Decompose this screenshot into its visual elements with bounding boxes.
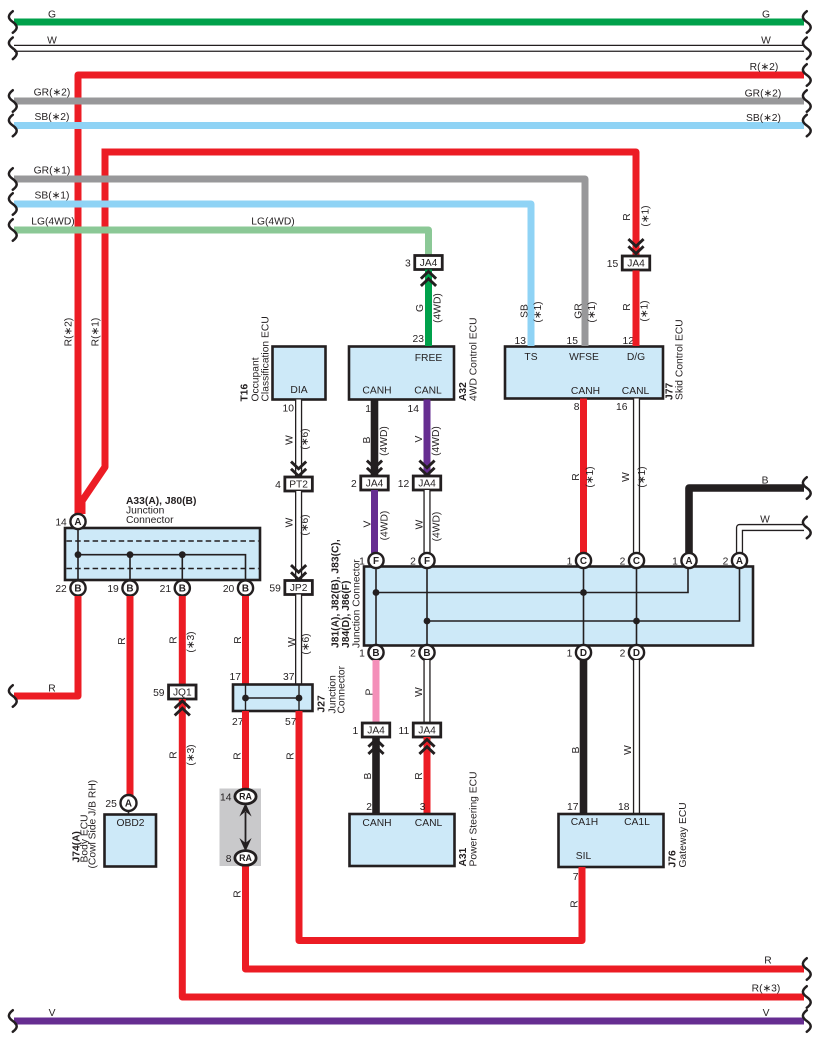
- svg-text:R: R: [233, 752, 244, 759]
- svg-text:G: G: [48, 10, 56, 21]
- svg-text:10: 10: [283, 404, 295, 415]
- svg-text:12: 12: [623, 336, 635, 347]
- svg-text:(∗1): (∗1): [637, 466, 648, 487]
- junction dot J27 right: [296, 695, 303, 702]
- svg-text:A32: A32: [458, 382, 469, 401]
- label Body ECU: [80, 814, 91, 862]
- svg-text:15: 15: [567, 336, 579, 347]
- node 25 A: [105, 795, 136, 811]
- node 19 B: [107, 580, 137, 595]
- connector 59 JP2: [269, 581, 312, 595]
- svg-text:3: 3: [420, 802, 426, 813]
- svg-text:1: 1: [359, 648, 365, 659]
- wire R red from J27 pin 57 to J76 SIL: [286, 711, 582, 941]
- svg-text:B: B: [423, 648, 430, 659]
- svg-text:57: 57: [285, 717, 297, 728]
- svg-text:RA: RA: [239, 853, 252, 863]
- svg-text:14: 14: [408, 404, 420, 415]
- bus wire V purple: [9, 1008, 811, 1032]
- wire W(*6) from T16 DIA to PT2: [285, 400, 312, 478]
- svg-text:D: D: [580, 648, 587, 659]
- terminal WFSE: [569, 352, 599, 363]
- svg-text:1: 1: [353, 726, 359, 737]
- svg-text:8: 8: [574, 402, 580, 413]
- label Cowl Side J/B RH: [88, 780, 99, 869]
- svg-text:17: 17: [230, 672, 242, 683]
- pin 57 of J27: [285, 717, 297, 728]
- node 14 A: [55, 514, 85, 529]
- svg-text:Connector: Connector: [337, 665, 348, 713]
- junction dot A33 col2: [127, 551, 134, 558]
- svg-text:7: 7: [573, 872, 579, 883]
- svg-text:22: 22: [55, 584, 67, 595]
- pin 10 of T16: [283, 404, 295, 415]
- wire W(*6) from PT2 to JP2: [285, 491, 312, 581]
- svg-text:B: B: [363, 772, 374, 779]
- svg-text:G: G: [415, 304, 426, 312]
- junction dot A33 col3: [179, 551, 186, 558]
- svg-text:R(∗2): R(∗2): [64, 318, 75, 347]
- wire R(*1) red bus and verticals: [82, 149, 652, 515]
- bus wire SB(*2) sky blue: [9, 112, 811, 136]
- svg-text:R: R: [414, 772, 425, 779]
- svg-text:B: B: [126, 584, 133, 595]
- wire R red from J27 pin 27 to RA: [233, 711, 246, 789]
- svg-text:P: P: [365, 688, 376, 695]
- svg-text:2: 2: [620, 556, 626, 567]
- arrow into PT2: [291, 462, 306, 476]
- svg-text:Connector: Connector: [126, 515, 174, 526]
- wire R(*3) red from JQ1 to bottom right break: [169, 699, 811, 1008]
- pin 1 of A32: [365, 404, 371, 415]
- svg-text:(4WD): (4WD): [380, 511, 391, 541]
- svg-text:(Cowl Side J/B RH): (Cowl Side J/B RH): [88, 780, 99, 869]
- svg-text:1: 1: [359, 556, 365, 567]
- wire R(*3) red from node 21B to JQ1: [169, 596, 198, 685]
- arrow into 15 JA4: [628, 239, 643, 253]
- junction connector J81/J82/J83/J84/J86 box: [364, 567, 753, 646]
- svg-text:A: A: [685, 556, 692, 567]
- label 4WD Control ECU: [469, 317, 480, 401]
- svg-text:J81(A), J82(B), J83(C),: J81(A), J82(B), J83(C),: [331, 539, 342, 648]
- svg-text:B: B: [372, 648, 379, 659]
- pin 3 of A31: [420, 802, 426, 813]
- label T16 designator: [240, 383, 251, 401]
- svg-text:JA4: JA4: [366, 479, 384, 490]
- svg-text:SB(∗2): SB(∗2): [35, 112, 70, 123]
- svg-text:GR(∗2): GR(∗2): [745, 89, 782, 100]
- connector 3 JA4: [405, 256, 442, 270]
- internal CANL bus line: [427, 567, 740, 621]
- svg-text:B: B: [362, 436, 373, 443]
- node 1 C: [567, 553, 592, 568]
- ECU box T16 Occupant Classification ECU: [273, 347, 326, 400]
- label A33(A), J80(B): [126, 496, 196, 507]
- svg-text:JA4: JA4: [418, 726, 436, 737]
- twisted pair arrow RA-RA: [239, 803, 251, 852]
- svg-text:23: 23: [413, 334, 425, 345]
- ECU box J76 Gateway ECU: [559, 814, 664, 867]
- svg-text:LG(4WD): LG(4WD): [251, 217, 294, 228]
- node 1 D: [567, 645, 592, 660]
- svg-text:(∗6): (∗6): [300, 514, 311, 535]
- terminal DIA: [290, 385, 307, 396]
- svg-text:W: W: [415, 519, 426, 529]
- bus wire G green: [9, 10, 811, 33]
- svg-text:(∗1): (∗1): [585, 466, 596, 487]
- bus wire GR(*1) grey to J77 WFSE: [9, 166, 598, 347]
- svg-text:4: 4: [275, 480, 281, 491]
- label Connector: [126, 515, 174, 526]
- svg-text:2: 2: [723, 556, 729, 567]
- svg-text:(∗3): (∗3): [186, 631, 197, 652]
- svg-text:JA4: JA4: [627, 259, 645, 270]
- internal bus line of A33: [78, 555, 246, 580]
- label Skid Control ECU: [675, 319, 686, 400]
- label Power Steering ECU: [469, 772, 480, 867]
- wire W white from right break to node 2A: [740, 515, 811, 554]
- wire R(*1) red to J77 D/G: [622, 271, 651, 347]
- svg-text:WFSE: WFSE: [569, 352, 599, 363]
- label J81(A), J82(B), J83(C),: [331, 539, 342, 648]
- arrow into 1 JA4: [368, 740, 383, 754]
- label J76 designator: [668, 850, 679, 867]
- svg-text:DIA: DIA: [290, 385, 307, 396]
- svg-text:12: 12: [398, 479, 410, 490]
- wire R(*2) red bus and vertical to node A: [64, 62, 811, 514]
- svg-text:B: B: [571, 746, 582, 753]
- svg-text:13: 13: [515, 336, 527, 347]
- label Junction J27: [328, 675, 339, 714]
- junction dot 1C line: [580, 589, 587, 596]
- svg-text:SIL: SIL: [576, 851, 592, 862]
- pin 23 of A32: [413, 334, 425, 345]
- svg-text:1: 1: [365, 404, 371, 415]
- terminal CA1H: [571, 817, 598, 828]
- svg-text:W: W: [287, 637, 298, 647]
- svg-text:R: R: [622, 213, 633, 220]
- svg-text:F: F: [373, 556, 379, 567]
- junction dot A33 col1: [75, 551, 82, 558]
- node 21 B: [160, 580, 190, 595]
- svg-text:2: 2: [410, 648, 416, 659]
- label Occupant: [251, 357, 262, 401]
- svg-text:CANL: CANL: [414, 386, 442, 397]
- internal column 14A-22B: [77, 529, 79, 581]
- svg-text:CANH: CANH: [362, 818, 391, 829]
- pin 12 of J77: [623, 336, 635, 347]
- internal column 19B: [129, 555, 131, 580]
- wire R red from node 20B to J27 pin 17: [233, 596, 245, 684]
- bus wire W white: [9, 36, 811, 60]
- connector 1 JA4: [353, 723, 390, 737]
- wire V(4WD) purple from 2 JA4 to node 1F: [363, 490, 391, 553]
- svg-text:CANH: CANH: [571, 386, 600, 397]
- svg-text:(4WD): (4WD): [431, 426, 442, 456]
- svg-text:R: R: [48, 684, 55, 695]
- svg-text:W: W: [285, 435, 296, 445]
- svg-text:V: V: [763, 1008, 770, 1019]
- label J27 designator: [317, 695, 328, 712]
- node 2 A: [723, 553, 748, 568]
- wire V(4WD) purple from A32 CANL: [414, 400, 442, 477]
- ECU box J77 Skid Control ECU: [505, 347, 663, 399]
- terminal D/G: [627, 352, 645, 363]
- label J84(D), J86(F): [341, 580, 352, 648]
- svg-text:LG(4WD): LG(4WD): [31, 217, 74, 228]
- terminal CANL of J77: [622, 386, 650, 397]
- svg-text:B: B: [179, 584, 186, 595]
- node 1 F: [359, 553, 384, 568]
- svg-text:RA: RA: [239, 792, 252, 802]
- bus wire SB(*1) sky blue to J77 TS: [9, 191, 544, 347]
- svg-text:R: R: [169, 636, 180, 643]
- svg-text:TS: TS: [524, 352, 537, 363]
- label J74(A) designator: [72, 831, 83, 862]
- svg-text:R: R: [117, 637, 128, 644]
- svg-text:D/G: D/G: [627, 352, 645, 363]
- label A32 designator: [458, 382, 469, 401]
- label Junction: [126, 506, 165, 517]
- svg-text:B: B: [762, 476, 769, 487]
- svg-text:SB(∗2): SB(∗2): [746, 113, 781, 124]
- wire B black from right break to node 1A: [689, 476, 811, 554]
- svg-text:37: 37: [283, 672, 295, 683]
- svg-text:16: 16: [616, 402, 628, 413]
- svg-text:Power Steering ECU: Power Steering ECU: [469, 772, 480, 867]
- svg-text:A: A: [736, 556, 743, 567]
- wire R red to A31 CANL: [414, 737, 427, 814]
- svg-text:27: 27: [232, 717, 244, 728]
- svg-text:FREE: FREE: [415, 353, 443, 364]
- wire W(4WD) white from 12 JA4 to node 2F: [415, 490, 443, 553]
- svg-text:2: 2: [620, 648, 626, 659]
- terminal FREE: [415, 353, 443, 364]
- svg-text:(∗6): (∗6): [300, 428, 311, 449]
- junction connector J27 box: [233, 685, 313, 712]
- svg-text:3: 3: [405, 258, 411, 269]
- svg-text:GR(∗1): GR(∗1): [34, 166, 71, 177]
- pin 13 of J77: [515, 336, 527, 347]
- svg-text:C: C: [580, 556, 587, 567]
- terminal OBD2: [116, 818, 144, 829]
- svg-text:R: R: [169, 751, 180, 758]
- svg-text:(∗6): (∗6): [301, 633, 312, 654]
- ECU box A31 Power Steering ECU: [350, 814, 455, 866]
- svg-text:(∗1): (∗1): [641, 205, 652, 226]
- svg-text:R(∗2): R(∗2): [750, 62, 779, 73]
- svg-text:V: V: [414, 435, 425, 442]
- connector 59 JQ1: [153, 685, 196, 699]
- terminal CA1L: [624, 817, 650, 828]
- label J77 designator: [665, 383, 676, 400]
- node 2 C: [620, 553, 645, 568]
- svg-text:11: 11: [399, 726, 410, 737]
- svg-text:W: W: [285, 517, 296, 527]
- svg-text:F: F: [424, 556, 430, 567]
- arrow into 12 JA4: [419, 461, 434, 475]
- shield plate RA: [220, 789, 262, 867]
- internal column 2F-2B: [426, 569, 428, 646]
- wire P pink from node 1B to 1 JA4: [365, 660, 376, 723]
- svg-text:T16: T16: [240, 383, 251, 401]
- node 14 RA: [220, 789, 256, 804]
- svg-text:OBD2: OBD2: [116, 818, 144, 829]
- svg-text:R: R: [622, 303, 633, 310]
- svg-text:(∗1): (∗1): [533, 301, 544, 322]
- internal column 2C-2D: [636, 569, 638, 646]
- label A31 designator: [458, 847, 469, 866]
- wire R red from node 19B to OBD2: [117, 596, 130, 795]
- svg-text:21: 21: [160, 584, 172, 595]
- svg-text:(∗1): (∗1): [640, 300, 651, 321]
- svg-text:R: R: [233, 890, 244, 897]
- svg-text:19: 19: [107, 584, 119, 595]
- terminal CANL of A32: [414, 386, 442, 397]
- svg-text:C: C: [633, 556, 640, 567]
- wire W white from node 2D to J76 CA1L: [623, 660, 636, 814]
- svg-text:25: 25: [105, 799, 117, 810]
- svg-text:W: W: [760, 515, 770, 526]
- label Connector J27: [337, 665, 348, 713]
- connector 15 JA4: [607, 256, 650, 270]
- internal column 21B: [181, 555, 183, 580]
- wire W white from node 2B to 11 JA4: [414, 660, 427, 723]
- node 1 A: [672, 553, 697, 568]
- pin 17 of J27: [230, 672, 242, 683]
- svg-text:CA1L: CA1L: [624, 817, 650, 828]
- svg-text:G: G: [762, 10, 770, 21]
- wire R red from node 22B to left break: [9, 596, 78, 707]
- svg-text:CA1H: CA1H: [571, 817, 598, 828]
- svg-text:JA4: JA4: [367, 726, 385, 737]
- internal column 1C-1D: [583, 569, 585, 646]
- svg-text:J27: J27: [317, 695, 328, 712]
- svg-text:GR: GR: [574, 303, 585, 318]
- pin 8 of J77: [574, 402, 580, 413]
- svg-text:Classification ECU: Classification ECU: [261, 316, 272, 401]
- svg-text:8: 8: [226, 854, 232, 865]
- svg-text:(∗3): (∗3): [186, 744, 197, 765]
- pin 14 of A32: [408, 404, 420, 415]
- wire B black to A31 CANH: [363, 737, 376, 814]
- terminal CANL of A31: [415, 818, 443, 829]
- pin 16 of J77: [616, 402, 628, 413]
- svg-text:15: 15: [607, 259, 619, 270]
- svg-text:(4WD): (4WD): [379, 426, 390, 456]
- svg-text:W: W: [623, 745, 634, 755]
- svg-text:CANL: CANL: [622, 386, 650, 397]
- terminal CANH of A31: [362, 818, 391, 829]
- svg-text:1: 1: [567, 556, 573, 567]
- pin 27 of J27: [232, 717, 244, 728]
- label Gateway ECU: [678, 802, 689, 867]
- node 2 B: [410, 645, 435, 660]
- svg-text:J76: J76: [668, 850, 679, 867]
- internal column 1F-1B: [375, 569, 377, 646]
- node 22 B: [55, 580, 85, 595]
- svg-text:(∗1): (∗1): [587, 301, 598, 322]
- arrow into 11 JA4: [419, 740, 434, 754]
- svg-text:2: 2: [351, 479, 357, 490]
- svg-text:B: B: [242, 584, 249, 595]
- pin 7 of J76: [573, 872, 579, 883]
- arrow into 3 JA4: [421, 272, 436, 286]
- svg-text:JA4: JA4: [420, 258, 438, 269]
- svg-text:2: 2: [366, 802, 372, 813]
- node 8 RA: [226, 851, 256, 866]
- svg-text:R(∗1): R(∗1): [91, 318, 102, 347]
- junction dot 1F line: [373, 589, 380, 596]
- label Classification ECU: [261, 316, 272, 401]
- svg-text:R: R: [764, 956, 771, 967]
- pin 18 of J76: [618, 802, 630, 813]
- svg-text:Junction Connector: Junction Connector: [352, 559, 363, 648]
- bus wire GR(*2) grey: [9, 88, 811, 112]
- wire G(4WD) green to A32 FREE: [415, 270, 444, 347]
- terminal TS: [524, 352, 537, 363]
- wire R red from RA to bottom right break: [233, 867, 811, 980]
- node 2 F: [410, 553, 435, 568]
- svg-text:20: 20: [223, 584, 235, 595]
- svg-text:(4WD): (4WD): [433, 293, 444, 323]
- svg-text:W: W: [47, 36, 57, 47]
- junction dot 2F line: [424, 618, 431, 625]
- svg-text:GR(∗2): GR(∗2): [34, 88, 71, 99]
- svg-text:Gateway ECU: Gateway ECU: [678, 802, 689, 867]
- node 2 D: [620, 645, 645, 660]
- svg-text:D: D: [633, 648, 640, 659]
- svg-text:R: R: [570, 900, 581, 907]
- junction connector A33(A) J80(B) box: [65, 528, 260, 580]
- svg-text:A31: A31: [458, 847, 469, 866]
- svg-text:V: V: [363, 520, 374, 527]
- svg-text:14: 14: [55, 517, 67, 528]
- terminal SIL: [576, 851, 592, 862]
- svg-text:JP2: JP2: [290, 583, 308, 594]
- svg-text:2: 2: [410, 556, 416, 567]
- svg-text:W: W: [621, 472, 632, 482]
- svg-text:CANL: CANL: [415, 818, 443, 829]
- pin 15 of J77: [567, 336, 579, 347]
- junction dot J27 left: [242, 695, 249, 702]
- connector 4 PT2: [275, 477, 312, 491]
- svg-text:W: W: [414, 687, 425, 697]
- svg-text:R(∗3): R(∗3): [752, 984, 781, 995]
- svg-text:V: V: [49, 1008, 56, 1019]
- label Junction Connector central: [352, 559, 363, 648]
- svg-text:W: W: [761, 36, 771, 47]
- svg-text:1: 1: [672, 556, 678, 567]
- svg-text:J84(D), J86(F): J84(D), J86(F): [341, 580, 352, 648]
- svg-text:1: 1: [567, 648, 573, 659]
- pin 2 of A31: [366, 802, 372, 813]
- wire B black from node 1D to J76 CA1H: [571, 660, 583, 814]
- internal CANH bus line: [376, 567, 688, 593]
- svg-text:Skid Control ECU: Skid Control ECU: [675, 319, 686, 400]
- wire R(*1) red from J77 CANH to node 1C: [571, 399, 596, 554]
- ECU box A32 4WD Control ECU: [349, 347, 454, 400]
- svg-text:CANH: CANH: [362, 386, 391, 397]
- svg-text:4WD Control ECU: 4WD Control ECU: [469, 317, 480, 401]
- svg-text:JA4: JA4: [418, 479, 436, 490]
- svg-text:JQ1: JQ1: [173, 688, 192, 699]
- pin 37 of J27: [283, 672, 295, 683]
- pin 17 of J76: [567, 802, 579, 813]
- node 20 B: [223, 580, 253, 595]
- bus wire LG(4WD) light green to JA4: [9, 217, 429, 256]
- wire B(4WD) black from A32 CANH: [362, 400, 390, 477]
